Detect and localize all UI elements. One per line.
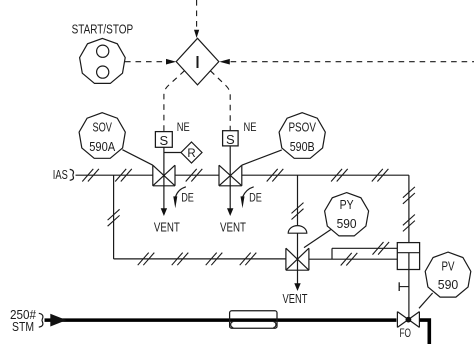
svg-text:FO: FO xyxy=(399,326,411,340)
svg-text:S: S xyxy=(159,133,168,148)
svg-text:SOV: SOV xyxy=(92,120,112,134)
svg-text:R: R xyxy=(187,148,195,160)
svg-text:590: 590 xyxy=(337,217,357,231)
svg-text:STM: STM xyxy=(12,320,34,334)
svg-text:DE: DE xyxy=(249,190,262,204)
svg-text:VENT: VENT xyxy=(154,221,180,235)
svg-text:PY: PY xyxy=(340,198,355,212)
svg-text:S: S xyxy=(226,132,235,147)
svg-text:590A: 590A xyxy=(89,140,116,154)
svg-text:VENT: VENT xyxy=(283,292,308,306)
svg-text:PV: PV xyxy=(442,260,456,274)
svg-text:VENT: VENT xyxy=(220,221,246,235)
svg-text:590: 590 xyxy=(438,278,459,292)
svg-text:DE: DE xyxy=(181,190,194,204)
svg-text:NE: NE xyxy=(177,120,190,134)
svg-text:START/STOP: START/STOP xyxy=(72,22,134,36)
svg-text:590B: 590B xyxy=(290,140,315,154)
svg-text:PSOV: PSOV xyxy=(288,120,316,134)
svg-text:NE: NE xyxy=(244,120,257,134)
svg-text:IAS: IAS xyxy=(53,168,68,182)
